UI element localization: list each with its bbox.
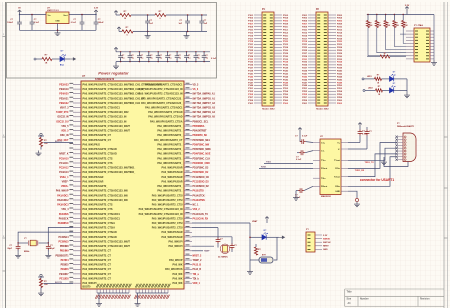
svg-text:T2in: T2in [321, 178, 326, 180]
svg-text:GND: GND [335, 191, 340, 193]
U2 left pin numbers [69, 83, 73, 282]
U2 left net labels [55, 83, 69, 280]
ground regulator [55, 30, 61, 35]
svg-text:P156: P156 [283, 94, 289, 96]
svg-text:PC5/IN15: PC5/IN15 [59, 242, 70, 244]
svg-text:P112: P112 [283, 29, 289, 31]
crystal Y1 8MHz [24, 238, 38, 253]
ground battery rail [247, 267, 253, 274]
capacitor C15 0.1uF [184, 52, 191, 62]
wire bottom bus 1 [97, 292, 129, 294]
MAX3232 U3 body [320, 139, 341, 195]
svg-text:P203: P203 [302, 18, 308, 20]
svg-text:Header 30X2: Header 30X2 [316, 108, 329, 111]
svg-text:R2out: R2out [321, 185, 327, 188]
svg-text:P209: P209 [302, 27, 308, 29]
svg-text:PA0_WKUP/: PA0_WKUP/ [168, 241, 182, 244]
svg-text:PA13/JTMS: PA13/JTMS [193, 199, 206, 202]
svg-text:P149: P149 [248, 84, 254, 87]
ground R13 [36, 147, 42, 156]
svg-text:PA0_WKUP/USART2_CTS: PA0_WKUP/USART2_CTS [83, 208, 113, 211]
svg-text:P110: P110 [283, 27, 289, 29]
svg-text:PD0/FSMC_D2: PD0/FSMC_D2 [193, 172, 210, 174]
svg-text:PA0_WKUP/USART2_: PA0_WKUP/USART2_ [83, 185, 109, 188]
svg-text:PA0_WKUP/USART2_CTS/ADC123_IN0: PA0_WKUP/USART2_CTS/ADC123_IN0/TIM2_ [83, 167, 136, 170]
svg-text:VREF-: VREF- [62, 181, 69, 183]
U2 bottom pin stubs group 2 [136, 289, 168, 293]
svg-text:3.3V: 3.3V [94, 8, 99, 10]
svg-text:Header 30X2: Header 30X2 [262, 108, 275, 111]
svg-text:P205: P205 [302, 21, 308, 23]
svg-text:P158: P158 [283, 97, 289, 99]
svg-text:PA0_WKUP/USART2_CTS/ADC123_IN: PA0_WKUP/USART2_CTS/ADC123_IN [139, 93, 183, 96]
svg-text:PA13_B: PA13_B [193, 264, 202, 267]
VCC5 power port [18, 8, 22, 15]
U2 designator [82, 75, 115, 81]
wire R2in [348, 157, 396, 187]
svg-text:P252: P252 [337, 88, 343, 90]
svg-text:P250: P250 [337, 85, 343, 87]
crystal Y2 32768 [218, 244, 230, 259]
svg-text:STM32F103VET6: STM32F103VET6 [95, 78, 115, 81]
svg-text:PA0_WKUP/USART2_CTS/ADC123_IN: PA0_WKUP/USART2_CTS/ADC123_IN [139, 213, 183, 216]
svg-text:8M-TDA_8M/PC9_A5: 8M-TDA_8M/PC9_A5 [193, 116, 216, 119]
svg-text:VD_3: VD_3 [193, 84, 199, 86]
wire DB9 shell [384, 160, 408, 167]
svg-text:P222: P222 [337, 44, 343, 46]
svg-text:P211: P211 [302, 29, 308, 31]
sheet border right [444, 2, 448, 308]
svg-text:PC1/A11: PC1/A11 [59, 162, 69, 165]
svg-text:PA12/CAN_TX: PA12/CAN_TX [193, 213, 209, 216]
svg-text:PD3/FSMC_CLK: PD3/FSMC_CLK [193, 158, 211, 160]
svg-text:P147: P147 [248, 81, 254, 84]
svg-text:P140: P140 [283, 70, 289, 73]
svg-text:PC11/SDIO_D3: PC11/SDIO_D3 [193, 181, 210, 183]
capacitor C1 100uF [7, 15, 22, 31]
svg-text:Title: Title [347, 290, 353, 293]
svg-text:PA0_WKUP/USART2_CTS/: PA0_WKUP/USART2_CTS/ [152, 227, 183, 230]
svg-text:PA0_WKUP/USART2_CTS/ADC123_IN: PA0_WKUP/USART2_CTS/ADC123_IN [83, 116, 127, 119]
svg-text:P101: P101 [248, 15, 254, 17]
capacitor C12 0.1uF [156, 52, 163, 62]
wire regulator input rail [19, 14, 46, 16]
resistor R4 [119, 27, 133, 36]
U2 left pin stubs [73, 85, 81, 284]
svg-text:PA3/ADC3: PA3/ADC3 [57, 204, 69, 207]
svg-text:P232: P232 [337, 59, 343, 61]
U2 bottom pin numbers row [96, 284, 170, 288]
svg-text:PA0_WKUP/USART2_: PA0_WKUP/USART2_ [157, 190, 183, 193]
svg-text:PE2/A23: PE2/A23 [59, 83, 69, 86]
svg-text:P227: P227 [302, 53, 308, 55]
svg-text:P106: P106 [283, 21, 289, 23]
LED D3 blue [390, 83, 396, 93]
svg-text:PD7/FSMC_NE1: PD7/FSMC_NE1 [193, 140, 211, 142]
capacitor C22 V- [348, 127, 372, 149]
svg-text:P235: P235 [302, 65, 308, 67]
svg-text:P143: P143 [248, 75, 254, 78]
svg-text:PA0_WKUP/USAR: PA0_WKUP/USAR [83, 176, 104, 179]
svg-text:P249: P249 [302, 84, 308, 87]
svg-text:PA0_WKUP/US: PA0_WKUP/US [165, 268, 183, 271]
svg-text:P115: P115 [248, 35, 254, 37]
LED D1 power [60, 51, 66, 67]
svg-text:P238: P238 [337, 68, 343, 70]
capacitor C19 [296, 150, 313, 161]
svg-text:Vout: Vout [63, 14, 68, 17]
wire decoupling bottom rail [116, 61, 210, 62]
svg-text:PA0_WKUP/USART2_CT: PA0_WKUP/USART2_CT [83, 277, 112, 280]
svg-text:P254: P254 [337, 90, 343, 93]
capacitor C14 [7, 243, 20, 253]
svg-text:PA0_WKUP/USART2_: PA0_WKUP/USART2_ [157, 144, 183, 147]
svg-text:P204: P204 [337, 17, 343, 20]
svg-text:P208: P208 [337, 24, 343, 26]
power regulator section frame [7, 3, 217, 79]
svg-text:P253: P253 [302, 91, 308, 93]
svg-text:P144: P144 [283, 75, 289, 78]
svg-text:P256: P256 [337, 94, 343, 96]
resistor R10 horizontal [367, 53, 406, 58]
svg-text:D?: D? [393, 72, 395, 74]
svg-text:PA0_WKUP/USART2_CTS/AD: PA0_WKUP/USART2_CTS/AD [148, 116, 182, 119]
svg-text:P261: P261 [302, 103, 308, 105]
svg-text:PA0_WKUP/USART2_CTS/: PA0_WKUP/USART2_CTS/ [152, 199, 183, 202]
svg-text:PB5/SMBA: PB5/SMBA [193, 125, 205, 128]
svg-text:LM1117-3.3: LM1117-3.3 [47, 10, 59, 12]
svg-text:PB6/I2C1_SCL: PB6/I2C1_SCL [193, 121, 209, 123]
svg-text:PB2/BOOT1: PB2/BOOT1 [55, 255, 69, 257]
svg-text:PD4/FSMC_NOE: PD4/FSMC_NOE [193, 153, 211, 156]
svg-text:PA0_WKUP/USAR: PA0_WKUP/USAR [162, 167, 183, 170]
svg-text:NC_1: NC_1 [193, 205, 200, 207]
svg-text:10K: 10K [44, 143, 48, 145]
svg-text:PA0_WKUP/USART2_CTS/AD: PA0_WKUP/USART2_CTS/AD [83, 231, 117, 234]
svg-text:R?: R? [377, 75, 379, 77]
svg-text:PA0_WKUP/USART2_CTS/ADC123_: PA0_WKUP/USART2_CTS/ADC123_ [141, 97, 183, 100]
svg-text:P255: P255 [302, 94, 308, 96]
svg-text:Number: Number [360, 298, 369, 300]
svg-text:PA0_WKUP/USART2_CTS/ADC123_IN0: PA0_WKUP/USART2_CTS/ADC123_IN0 [83, 194, 129, 197]
svg-text:NRST_K: NRST_K [59, 154, 69, 156]
svg-text:PA0_WKUP/USART2_CTS/ADC123_IN0: PA0_WKUP/USART2_CTS/ADC123_IN0/TIM2_CH1_ [83, 93, 143, 96]
connector P1 header right net labels [283, 15, 289, 105]
svg-text:P218: P218 [337, 38, 343, 40]
svg-text:P257: P257 [302, 97, 308, 99]
svg-text:P260: P260 [337, 100, 343, 102]
DB9 P4 designator [397, 123, 415, 128]
svg-text:3.3V: 3.3V [323, 235, 328, 237]
svg-text:P224: P224 [337, 46, 343, 49]
U2 bottom pin number labels 2 [134, 295, 169, 299]
connector P1 header body [262, 12, 274, 106]
svg-text:P109: P109 [248, 27, 254, 29]
svg-text:P153: P153 [248, 91, 254, 93]
U3 designator [320, 136, 332, 198]
wire R11 to D2 [382, 78, 390, 80]
svg-text:P102: P102 [283, 15, 289, 17]
svg-text:PA6/MISO: PA6/MISO [58, 222, 69, 225]
svg-text:NRST: NRST [323, 246, 329, 248]
svg-text:V-: V- [338, 149, 340, 151]
svg-text:PA0_WKUP/USART2_CTS/ADC123_IN0: PA0_WKUP/USART2_CTS/ADC123_IN0/TIM2_ [83, 171, 136, 174]
ground DB9 [381, 157, 396, 165]
svg-text:P122: P122 [283, 44, 289, 46]
wire bottom bus 2 [136, 292, 168, 294]
title block text [347, 290, 431, 305]
wire filter bottom rail [133, 31, 207, 33]
capacitor C2 0.1uF [30, 15, 40, 31]
wire battery right loop [274, 237, 277, 260]
ground filter 1 [145, 31, 151, 38]
zone tick marks [3, 34, 448, 271]
U2 left pin names [83, 83, 163, 285]
svg-text:T1out: T1out [334, 159, 340, 162]
sheet border left [3, 2, 6, 308]
svg-text:PA11/CAN_RX: PA11/CAN_RX [193, 217, 209, 220]
svg-text:P244: P244 [337, 75, 343, 78]
svg-text:PA0_WKUP/USART2_: PA0_WKUP/USART2_ [157, 134, 183, 137]
svg-text:PA0_WKUP/USART2_CTS/ADC1: PA0_WKUP/USART2_CTS/ADC1 [83, 213, 121, 216]
svg-text:PE8/D5: PE8/D5 [61, 265, 70, 267]
svg-text:P157: P157 [248, 97, 254, 99]
wire RXD1 [259, 166, 313, 168]
svg-text:PA0_WKUP/USART2_: PA0_WKUP/USART2_ [157, 162, 183, 165]
svg-text:PA0_WKUP/USART2_CTS/ADC1: PA0_WKUP/USART2_CTS/ADC1 [83, 107, 121, 110]
wire battery rail [249, 223, 250, 267]
svg-text:P251: P251 [302, 88, 308, 90]
wire regulator output rail [69, 14, 97, 16]
svg-text:P219: P219 [302, 41, 308, 43]
DB9 connector P4 [395, 133, 416, 162]
wire TXD1 [264, 161, 313, 163]
svg-text:P104: P104 [283, 17, 289, 20]
svg-text:P124: P124 [283, 46, 289, 49]
svg-text:P213: P213 [302, 32, 308, 34]
svg-text:P161: P161 [248, 103, 254, 105]
capacitor C9 0.1uF [128, 52, 135, 62]
svg-text:P212: P212 [337, 29, 343, 31]
svg-text:P162: P162 [283, 103, 289, 105]
wire D3 to rail [394, 79, 407, 93]
svg-text:0.1uF: 0.1uF [211, 58, 217, 60]
svg-text:PA0_WKUP/USART2_: PA0_WKUP/USART2_ [157, 130, 183, 133]
svg-text:PD5/FSMC_NWE: PD5/FSMC_NWE [193, 149, 212, 151]
svg-text:P220: P220 [337, 41, 343, 43]
battery BT1 [259, 255, 273, 264]
svg-text:P137: P137 [248, 68, 254, 70]
svg-text:PA0_WKUP/USART2_CTS/ADC123_IN0: PA0_WKUP/USART2_CTS/ADC123_IN0 [83, 190, 129, 193]
svg-text:P231: P231 [302, 59, 308, 61]
connector P1 header left net labels [248, 15, 254, 105]
svg-text:PA0_WKUP/USART2_: PA0_WKUP/USART2_ [157, 148, 183, 151]
connector P5 body [306, 232, 315, 252]
svg-text:PE5/A21: PE5/A21 [59, 97, 69, 100]
wire R1 to D1 [52, 58, 60, 60]
svg-text:P133: P133 [248, 62, 254, 64]
svg-text:P234: P234 [337, 61, 343, 64]
svg-text:DB9male/USART1: DB9male/USART1 [397, 125, 415, 128]
svg-text:PD2/SDIO_CMD: PD2/SDIO_CMD [193, 163, 211, 165]
wire R1in to DB9 [348, 143, 396, 172]
VCC U3 left [298, 128, 302, 142]
wire crystal nodes [17, 242, 49, 243]
svg-text:PA1/ADC1: PA1/ADC1 [57, 194, 69, 197]
svg-text:3.3V: 3.3V [405, 5, 410, 7]
svg-text:VREF+: VREF+ [61, 186, 69, 188]
svg-text:PA15/JTDI: PA15/JTDI [193, 190, 205, 193]
svg-text:PA0_WKUP/USART2_CTS/ADC1: PA0_WKUP/USART2_CTS/ADC1 [145, 107, 183, 110]
ground JTAG [431, 60, 437, 65]
svg-text:TDI_b: TDI_b [193, 278, 200, 280]
svg-text:8MHz: 8MHz [24, 251, 29, 253]
svg-text:PA0_WKUP/USART2_CTS/A: PA0_WKUP/USART2_CTS/A [83, 227, 116, 230]
wire D1 to port [64, 58, 70, 60]
capacitor C17 0.1uF [202, 52, 209, 62]
svg-text:P202: P202 [337, 15, 343, 17]
wire bus2 to ground [137, 293, 139, 301]
wire OSC32 node2 [192, 237, 232, 244]
wire bus1 to ground [98, 293, 100, 301]
svg-text:P201: P201 [302, 15, 308, 17]
svg-text:PA0_WKUP/USART2_CTS/ADC1: PA0_WKUP/USART2_CTS/ADC1 [145, 83, 183, 86]
svg-text:P119: P119 [248, 41, 254, 43]
resistor R3 [155, 11, 166, 20]
U1 label LM1117 [47, 8, 59, 13]
svg-text:8M-TDA_8M/PA8_A1: 8M-TDA_8M/PA8_A1 [193, 93, 216, 96]
svg-text:PA0_WKUP/USART2_CTS/: PA0_WKUP/USART2_CTS/ [152, 222, 183, 225]
capacitor C8 0.1uF [118, 52, 125, 62]
svg-text:GND: GND [55, 21, 60, 23]
svg-text:P154: P154 [283, 90, 289, 93]
svg-text:PB3/SPI3_SK: PB3/SPI3_SK [193, 135, 208, 137]
capacitor C6 [178, 15, 190, 31]
svg-text:VBAT: VBAT [252, 220, 258, 223]
svg-text:PE9/D6: PE9/D6 [61, 269, 70, 271]
svg-text:OSC32_IN: OSC32_IN [57, 117, 68, 119]
svg-text:P240: P240 [337, 70, 343, 73]
MCU U2 STM32F103 body [81, 81, 184, 289]
svg-text:P126: P126 [283, 50, 289, 52]
svg-text:PA0_WKUP/USAR: PA0_WKUP/USAR [83, 180, 104, 183]
VDDA filter bottom port [117, 27, 121, 31]
svg-text:PA0_WKUP/USART2_CTS/ADC123_IN0: PA0_WKUP/USART2_CTS/ADC123_IN0/T [83, 130, 131, 133]
svg-text:PC12/SDIO_CK: PC12/SDIO_CK [193, 177, 210, 179]
svg-text:0.1uF: 0.1uF [71, 22, 77, 24]
svg-text:U?: U? [82, 75, 86, 78]
svg-text:P146: P146 [283, 78, 289, 81]
svg-text:PA0_WKUP/USAR: PA0_WKUP/USAR [162, 180, 183, 183]
resistor R6 10K [375, 21, 382, 28]
connector P2 header left pin stubs [308, 15, 316, 103]
connector P1 header right pin stubs [274, 15, 282, 103]
svg-text:8M-TDA_8M/PC7_A2: 8M-TDA_8M/PC7_A2 [193, 102, 216, 105]
svg-text:TXD1_RX: TXD1_RX [355, 170, 365, 172]
svg-text:PA0_WKUP/USART2_CTS: PA0_WKUP/USART2_CTS [83, 157, 113, 160]
svg-text:VSS_2: VSS_2 [193, 209, 201, 211]
power port C20 [293, 191, 299, 201]
capacitor C20 [295, 186, 313, 199]
svg-text:LED1: LED1 [367, 76, 372, 78]
svg-text:P141: P141 [248, 72, 254, 75]
svg-text:R1in: R1in [335, 168, 340, 170]
svg-text:PD6/FSMC_NW: PD6/FSMC_NW [193, 145, 211, 147]
svg-text:PA0_WKUP/USART2_CTS/ADC123_IN0: PA0_WKUP/USART2_CTS/ADC123_IN0/T [83, 241, 131, 244]
svg-text:P247: P247 [302, 81, 308, 84]
svg-text:TXD1: TXD1 [266, 161, 272, 163]
svg-text:PE10/D7: PE10/D7 [59, 274, 69, 276]
svg-text:PE11/D8: PE11/D8 [59, 278, 69, 280]
ground C15 [45, 253, 51, 258]
svg-text:connector for USART1: connector for USART1 [360, 178, 394, 182]
wire R12 to D3 [383, 89, 390, 91]
svg-text:P223: P223 [302, 47, 308, 49]
svg-text:PA0_WKUP/USART2_: PA0_WKUP/USART2_ [157, 185, 183, 188]
resistor R14 10K [39, 277, 48, 288]
svg-text:P138: P138 [283, 68, 289, 70]
svg-text:P239: P239 [302, 71, 308, 73]
capacitor C13 0.1uF [165, 52, 172, 62]
svg-text:PA0_WKUP/USART2_CTS/A: PA0_WKUP/USART2_CTS/A [83, 222, 116, 225]
capacitor C16 0.1uF [194, 52, 201, 62]
resistor R11 1K [375, 75, 382, 85]
svg-text:Power regulator: Power regulator [98, 71, 129, 76]
svg-text:PA14/JTCK: PA14/JTCK [193, 194, 206, 197]
wires resistors to JTAG pins [368, 28, 406, 56]
U3 right pin stubs [341, 143, 348, 192]
svg-text:P230: P230 [337, 56, 343, 58]
wire LED2 feed [363, 88, 376, 92]
svg-text:PE7/D4: PE7/D4 [61, 259, 70, 262]
svg-text:OSC32_OU: OSC32_OU [56, 121, 69, 123]
svg-text:TAMP: TAMP [204, 250, 210, 253]
wire filter top rail 1 [131, 14, 155, 16]
svg-text:PA0_WK: PA0_WK [173, 282, 183, 285]
svg-text:8M-TDA_8M/PC9_A4: 8M-TDA_8M/PC9_A4 [193, 111, 216, 114]
svg-text:PA0_WK: PA0_WK [173, 273, 183, 276]
wire JTAG right rail [433, 15, 435, 61]
svg-text:SWDIO: SWDIO [323, 238, 330, 240]
svg-text:PA0_WKUP/USART2_CTS: PA0_WKUP/USART2_CTS [83, 162, 113, 165]
svg-text:NRST_2: NRST_2 [193, 255, 203, 257]
svg-text:PA0_WKUP/USART2_CTS/AD: PA0_WKUP/USART2_CTS/AD [83, 236, 117, 239]
svg-text:VDD_5: VDD_5 [61, 131, 69, 133]
svg-text:VS_3: VS_3 [193, 89, 199, 91]
svg-text:PA0_WK: PA0_WK [173, 277, 183, 280]
svg-text:PA0_WKUP/USART2_CTS: PA0_WKUP/USART2_CTS [83, 204, 113, 207]
svg-text:SWCLK: SWCLK [323, 242, 331, 244]
svg-text:P120: P120 [283, 41, 289, 43]
svg-text:PA0_WKUP/USART2_CTS/: PA0_WKUP/USART2_CTS/ [152, 204, 183, 207]
svg-text:PA0_WKUP/USAR: PA0_WKUP/USAR [162, 236, 183, 239]
svg-text:P228: P228 [337, 53, 343, 55]
svg-text:P241: P241 [302, 72, 308, 75]
svg-text:P258: P258 [337, 97, 343, 99]
svg-text:P236: P236 [337, 65, 343, 67]
svg-text:VSS_4: VSS_4 [61, 208, 69, 211]
svg-text:P150: P150 [283, 85, 289, 87]
U3 pin names [321, 142, 341, 193]
svg-text:P215: P215 [302, 35, 308, 37]
svg-text:P103: P103 [248, 18, 254, 20]
svg-text:8M-TDA_8M/PC6_A1: 8M-TDA_8M/PC6_A1 [193, 97, 216, 100]
BOOT0 node [38, 274, 44, 277]
LED D2 blue [390, 72, 396, 82]
svg-text:PA0_WKUP/USART2_: PA0_WKUP/USART2_ [157, 153, 183, 156]
connector P2 header left net labels [302, 15, 308, 105]
svg-text:P108: P108 [283, 24, 289, 26]
